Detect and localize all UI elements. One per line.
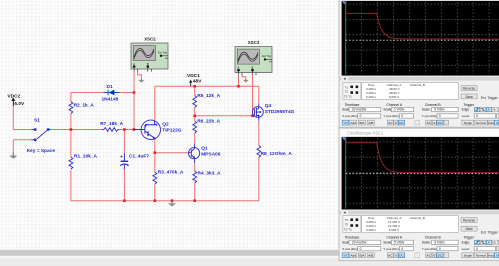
svg-text:Scale:: Scale:	[383, 108, 392, 112]
svg-text:Y/T: Y/T	[343, 121, 348, 125]
svg-text:0: 0	[476, 247, 478, 251]
svg-text:Reverse: Reverse	[463, 218, 475, 222]
svg-text:20 ms/Div: 20 ms/Div	[352, 108, 367, 112]
svg-text:R3_470k_A: R3_470k_A	[158, 170, 184, 176]
svg-text:T2-T1: T2-T1	[344, 227, 352, 231]
svg-text:Channel A: Channel A	[386, 236, 402, 240]
svg-text:Edge:: Edge:	[462, 241, 470, 245]
svg-text:Channel B: Channel B	[425, 236, 442, 240]
svg-text:0: 0	[433, 121, 435, 125]
svg-text:N: N	[496, 253, 498, 257]
svg-text:-: -	[446, 253, 447, 257]
svg-text:DC: DC	[399, 121, 404, 125]
svg-text:DC: DC	[438, 253, 443, 257]
svg-text:Trigger: Trigger	[463, 236, 474, 240]
svg-text:C1_4uF7: C1_4uF7	[129, 153, 149, 159]
svg-text:5 V/Div: 5 V/Div	[434, 108, 445, 112]
svg-text:R7_18k_A: R7_18k_A	[100, 121, 123, 127]
svg-text:D1: D1	[107, 84, 113, 90]
svg-text:R1_10k_A: R1_10k_A	[74, 154, 97, 160]
svg-text:2 V/Div: 2 V/Div	[394, 108, 405, 112]
svg-text:0: 0	[395, 253, 397, 257]
svg-text:0: 0	[433, 253, 435, 257]
svg-text:Q4: Q4	[265, 103, 272, 109]
svg-text:STD2955T4G: STD2955T4G	[265, 109, 295, 115]
svg-text:DC: DC	[438, 121, 443, 125]
svg-text:0: 0	[360, 114, 362, 118]
svg-text:VDC2: VDC2	[7, 93, 20, 99]
svg-text:Ext Trig: Ext Trig	[158, 50, 167, 54]
svg-text:XSC2: XSC2	[144, 37, 156, 42]
svg-text:0: 0	[360, 247, 362, 251]
svg-text:5 V/Div: 5 V/Div	[394, 241, 405, 245]
svg-text:Timebase: Timebase	[345, 236, 360, 240]
svg-text:Single: Single	[464, 121, 473, 125]
svg-text:Y/T: Y/T	[343, 253, 348, 257]
svg-text:R6_22k_A: R6_22k_A	[197, 119, 220, 125]
svg-text:T2: T2	[345, 90, 349, 94]
svg-text:Ext. Trigger: Ext. Trigger	[481, 230, 499, 234]
svg-text:N: N	[496, 121, 498, 125]
svg-text:20 ms/Div: 20 ms/Div	[352, 241, 367, 245]
svg-text:S1: S1	[34, 118, 40, 124]
svg-text:X pos.(Div):: X pos.(Div):	[342, 114, 358, 118]
svg-text:XSC3: XSC3	[248, 40, 260, 45]
svg-text:B: B	[147, 62, 149, 66]
svg-text:TIP122G: TIP122G	[162, 128, 181, 134]
svg-text:Single: Single	[464, 253, 473, 257]
svg-text:Save: Save	[465, 227, 473, 231]
svg-text:AC: AC	[427, 253, 432, 257]
svg-text:Y pos.(Div):: Y pos.(Div):	[383, 247, 399, 251]
svg-text:Reverse: Reverse	[463, 87, 475, 91]
svg-text:Q1: Q1	[201, 145, 208, 151]
svg-text:A: A	[488, 108, 490, 112]
svg-text:B: B	[494, 108, 496, 112]
svg-text:R8_12Ohm_A: R8_12Ohm_A	[261, 151, 293, 157]
svg-text:R5_12k_A: R5_12k_A	[197, 93, 220, 99]
svg-text:Scale:: Scale:	[422, 241, 431, 245]
svg-text:Level:: Level:	[462, 114, 470, 118]
svg-text:Y pos.(Div):: Y pos.(Div):	[422, 114, 438, 118]
svg-text:Y pos.(Div):: Y pos.(Div):	[422, 247, 438, 251]
svg-text:0: 0	[439, 114, 441, 118]
svg-text:T2: T2	[345, 222, 349, 226]
svg-text:Scale:: Scale:	[383, 241, 392, 245]
svg-text:A/B: A/B	[368, 121, 373, 125]
svg-text:Key = Space: Key = Space	[27, 148, 56, 154]
svg-text:A: A	[133, 62, 135, 66]
svg-text:Scale:: Scale:	[422, 108, 431, 112]
svg-text:Oscilloscope-XSC1: Oscilloscope-XSC1	[347, 130, 384, 135]
svg-text:R4_3k3_A: R4_3k3_A	[198, 170, 221, 176]
svg-text:Channel_B: Channel_B	[410, 83, 425, 87]
svg-text:0: 0	[476, 114, 478, 118]
svg-text:Normal: Normal	[476, 253, 486, 257]
svg-text:Auto: Auto	[488, 253, 494, 257]
svg-text:Save: Save	[465, 95, 473, 99]
svg-text:Edge:: Edge:	[462, 108, 470, 112]
svg-text:Auto: Auto	[488, 121, 494, 125]
svg-text:0: 0	[439, 247, 441, 251]
svg-text:0: 0	[401, 247, 403, 251]
svg-text:0: 0	[401, 114, 403, 118]
svg-text:A: A	[237, 66, 239, 70]
svg-text:48V: 48V	[193, 79, 202, 85]
svg-text:MPSA06: MPSA06	[201, 151, 221, 157]
svg-text:Channel B: Channel B	[425, 103, 442, 107]
svg-text:A: A	[488, 241, 490, 245]
svg-text:Trigger: Trigger	[463, 103, 474, 107]
svg-text:0.000 V: 0.000 V	[389, 228, 399, 232]
svg-text:B: B	[251, 66, 253, 70]
svg-text:DC: DC	[399, 253, 404, 257]
svg-text:X pos.(Div):: X pos.(Div):	[342, 247, 358, 251]
svg-text:Channel A: Channel A	[386, 103, 402, 107]
svg-text:5 V/Div: 5 V/Div	[434, 241, 445, 245]
svg-text:Y pos.(Div):: Y pos.(Div):	[383, 114, 399, 118]
svg-text:-: -	[446, 121, 447, 125]
svg-text:1N4148: 1N4148	[102, 97, 119, 103]
svg-text:0.000 s: 0.000 s	[366, 228, 376, 232]
svg-text:VDC1: VDC1	[187, 73, 200, 79]
svg-text:T2-T1: T2-T1	[344, 95, 352, 99]
svg-text:Normal: Normal	[476, 121, 486, 125]
svg-text:Ext. Trigger: Ext. Trigger	[481, 96, 499, 100]
svg-text:6.0V: 6.0V	[14, 101, 25, 107]
svg-text:R2_1k_A: R2_1k_A	[74, 103, 95, 109]
svg-text:Channel_B: Channel_B	[410, 216, 425, 220]
svg-text:Q2: Q2	[162, 121, 169, 127]
svg-text:Ext Trig: Ext Trig	[262, 54, 271, 58]
svg-text:B: B	[494, 241, 496, 245]
svg-text:0.000 s: 0.000 s	[366, 95, 376, 99]
svg-text:Add: Add	[350, 253, 356, 257]
svg-text:0: 0	[395, 121, 397, 125]
svg-text:AC: AC	[427, 121, 432, 125]
svg-text:Level:: Level:	[462, 247, 470, 251]
svg-text:Add: Add	[350, 121, 356, 125]
svg-text:0.000 V: 0.000 V	[389, 95, 399, 99]
svg-text:A/B: A/B	[368, 253, 373, 257]
svg-text:Timebase: Timebase	[345, 103, 360, 107]
svg-text:AC: AC	[388, 121, 393, 125]
svg-text:AC: AC	[388, 253, 393, 257]
